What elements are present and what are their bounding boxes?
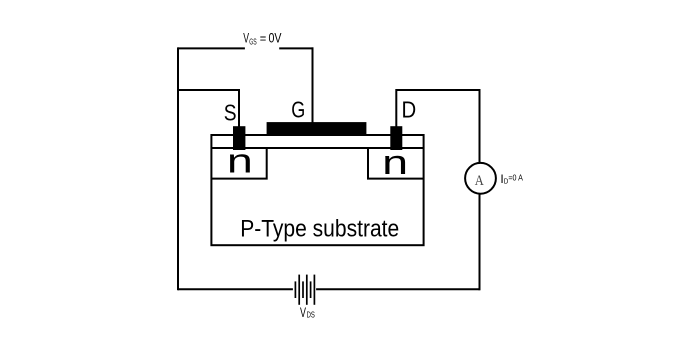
- P-type substrate body: [211, 135, 423, 245]
- wire source branch horizontal: [178, 89, 240, 91]
- wire bottom-left segment: [178, 288, 293, 290]
- wire left vertical (source to battery): [177, 47, 179, 290]
- ammeter A1 circle: [465, 163, 496, 194]
- drain contact: [390, 126, 402, 150]
- wire bottom-right segment: [316, 288, 479, 290]
- svg-text:GS: GS: [249, 36, 257, 46]
- oxide layer bottom line: [211, 147, 423, 149]
- svg-text:D: D: [402, 97, 417, 123]
- battery VDS (3 cells): [295, 275, 314, 305]
- svg-text:=: =: [260, 31, 267, 46]
- svg-text:S: S: [224, 100, 237, 126]
- label ID = 0 A: [500, 172, 523, 186]
- svg-text:G: G: [291, 97, 305, 123]
- svg-text:n: n: [227, 143, 253, 181]
- source contact: [233, 126, 245, 150]
- wire right vertical lower (ammeter to battery): [479, 194, 481, 291]
- label VDS: [300, 305, 315, 320]
- wire gate vertical: [312, 47, 314, 123]
- svg-text:V: V: [300, 305, 306, 320]
- svg-text:V: V: [243, 31, 249, 46]
- wire drain branch horizontal: [396, 89, 480, 91]
- gate electrode bar: [267, 122, 367, 135]
- n+ region left: [211, 148, 266, 179]
- svg-text:A: A: [475, 173, 484, 189]
- svg-text:DS: DS: [307, 310, 315, 320]
- svg-text:0V: 0V: [269, 31, 282, 46]
- wire top-right segment (gate loop): [279, 47, 313, 49]
- svg-text:P-Type substrate: P-Type substrate: [240, 216, 399, 243]
- wire top-left segment (gate loop): [178, 47, 245, 49]
- wire source vertical: [238, 89, 240, 127]
- label VGS = 0V: [243, 31, 281, 47]
- svg-text:=0 A: =0 A: [508, 173, 523, 183]
- svg-text:n: n: [382, 144, 408, 182]
- n+ region right: [368, 148, 424, 179]
- wire right vertical upper (drain to ammeter): [479, 89, 481, 163]
- wire drain vertical: [395, 89, 397, 127]
